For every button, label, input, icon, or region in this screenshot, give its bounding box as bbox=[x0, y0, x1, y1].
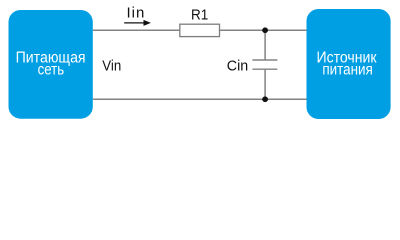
current arrow Iin bbox=[124, 22, 145, 24]
wire: top right segment bbox=[219, 29, 306, 31]
capacitor Cin top plate bbox=[252, 59, 277, 61]
svg-text:R1: R1 bbox=[191, 6, 208, 23]
junction node top bbox=[262, 27, 268, 33]
svg-text:питания: питания bbox=[322, 61, 373, 78]
block: supply network (Питающая сеть) bbox=[9, 10, 93, 119]
wire: top left segment bbox=[93, 29, 180, 31]
svg-text:сеть: сеть bbox=[38, 61, 65, 78]
capacitor Cin vertical wire top bbox=[264, 30, 266, 60]
svg-text:Cin: Cin bbox=[227, 57, 248, 74]
capacitor Cin bottom plate bbox=[252, 68, 277, 70]
capacitor Cin vertical wire bottom bbox=[264, 69, 266, 99]
resistor R1 bbox=[180, 24, 220, 36]
svg-text:Iin: Iin bbox=[127, 5, 145, 22]
block: power source (Источник питания) bbox=[307, 9, 391, 119]
junction node bottom bbox=[262, 96, 268, 102]
wire: bottom segment bbox=[93, 98, 307, 100]
svg-text:Vin: Vin bbox=[102, 58, 121, 75]
